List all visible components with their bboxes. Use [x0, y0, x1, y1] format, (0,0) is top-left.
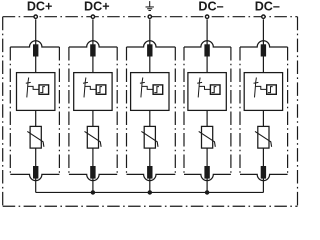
icon: thermal control element square branch 2: [96, 85, 106, 94]
icon: disconnect switch blade branch 2: [84, 78, 86, 98]
terminal circle 3: [148, 15, 151, 18]
SPD module box branch 2: bottom border with arc under disconnector: [69, 174, 117, 180]
junction dot on bus at branch 3: [148, 190, 153, 195]
SPD module box branch 5: bottom border with arc under disconnector: [240, 174, 288, 180]
icon: disconnect switch blade branch 1: [27, 78, 29, 98]
thermal disconnector (top fuse) branch 5: [261, 44, 266, 56]
icon: disconnect switch blade branch 5: [255, 78, 257, 98]
icon: thermal control element square branch 5: [267, 85, 277, 94]
wire: varistor to bottom disconnector branch 2: [92, 148, 94, 166]
protection element box (switch + thermal control icon) branch 4: [188, 73, 226, 111]
ground / earth symbol (PE terminal label): [146, 1, 154, 10]
icon: thermal control element square branch 3: [153, 85, 163, 94]
icon: step curve inside square branch 2: [97, 87, 102, 93]
icon: step curve inside square branch 3: [154, 87, 159, 93]
wire: protection element to varistor branch 4: [206, 110, 208, 126]
varistor diagonal stroke branch 3: [141, 131, 158, 146]
terminal circle 1: [34, 15, 37, 18]
icon: step curve inside square branch 4: [212, 87, 217, 93]
svg-text:DC–: DC–: [255, 0, 280, 14]
varistor body branch 5: [258, 126, 269, 148]
thermal disconnector (top fuse) branch 2: [90, 44, 95, 56]
wire: terminal 2 down to protection element: [92, 19, 94, 72]
wire: terminal 5 down to protection element: [262, 19, 264, 72]
icon: thermal control element square branch 1: [39, 85, 49, 94]
varistor body branch 2: [87, 126, 98, 148]
SPD module box branch 1: top border with arc over disconnector: [10, 41, 59, 47]
icon: meander link to control element branch 1: [28, 86, 39, 89]
wire: varistor to bottom disconnector branch 1: [35, 148, 37, 166]
varistor diagonal stroke branch 4: [199, 131, 216, 146]
protection element box (switch + thermal control icon) branch 2: [74, 73, 112, 111]
varistor diagonal stroke branch 2: [85, 131, 102, 146]
icon: meander link to control element branch 5: [256, 86, 267, 89]
wire: terminal 4 down to protection element: [206, 19, 208, 72]
terminal circle 5: [262, 15, 265, 18]
varistor body branch 1: [30, 126, 41, 148]
wire: protection element to varistor branch 2: [92, 110, 94, 126]
icon: disconnect switch blade branch 4: [198, 78, 200, 98]
svg-text:DC+: DC+: [27, 0, 53, 14]
thermal disconnector (bottom fuse) branch 3: [147, 166, 152, 179]
terminal circle 2: [91, 15, 94, 18]
SPD module box branch 2: right dash-dot border: [116, 47, 118, 174]
wire: protection element to varistor branch 1: [35, 110, 37, 126]
terminal circle 4: [205, 15, 208, 18]
thermal disconnector (bottom fuse) branch 4: [204, 166, 209, 179]
wire: varistor to bottom disconnector branch 5: [262, 148, 264, 166]
icon: meander link to control element branch 4: [199, 86, 210, 89]
wire: bottom disconnector to common bus branch 3: [149, 179, 151, 193]
SPD module box branch 1: right dash-dot border: [58, 47, 60, 174]
SPD module box branch 4: bottom border with arc under disconnector: [184, 174, 231, 180]
protection element box (switch + thermal control icon) branch 1: [17, 73, 55, 111]
SPD module box branch 1: left dash-dot border: [9, 47, 11, 174]
thermal disconnector (top fuse) branch 3: [147, 44, 152, 56]
SPD module box branch 3: left dash-dot border: [126, 47, 128, 174]
icon: meander link to control element branch 3: [142, 86, 153, 89]
SPD module box branch 4: right dash-dot border: [230, 47, 232, 174]
varistor diagonal stroke branch 5: [255, 131, 272, 146]
thermal disconnector (bottom fuse) branch 1: [33, 166, 38, 179]
wire: varistor to bottom disconnector branch 4: [206, 148, 208, 166]
svg-text:DC–: DC–: [198, 0, 223, 14]
wire: bottom disconnector to common bus branch 5: [262, 179, 264, 193]
SPD module box branch 5: top border with arc over disconnector: [240, 41, 288, 47]
wire: bottom disconnector to common bus branch 1: [35, 179, 37, 193]
SPD module box branch 2: top border with arc over disconnector: [69, 41, 117, 47]
wire: bottom disconnector to common bus branch 4: [206, 179, 208, 193]
icon: disconnect switch blade branch 3: [141, 78, 143, 98]
varistor body branch 3: [144, 126, 155, 148]
SPD module box branch 4: left dash-dot border: [183, 47, 185, 174]
wire: bottom disconnector to common bus branch 2: [92, 179, 94, 193]
svg-text:DC+: DC+: [84, 0, 110, 14]
varistor diagonal stroke branch 1: [27, 131, 44, 146]
SPD module box branch 5: right dash-dot border: [287, 47, 289, 174]
thermal disconnector (bottom fuse) branch 2: [90, 166, 95, 179]
icon: actuator tick branch 4: [197, 81, 202, 84]
SPD module box branch 4: top border with arc over disconnector: [184, 41, 231, 47]
SPD module box branch 2: left dash-dot border: [68, 47, 70, 174]
SPD module box branch 3: bottom border with arc under disconnector: [127, 174, 176, 180]
SPD module box branch 1: bottom border with arc under disconnector: [10, 174, 59, 180]
icon: actuator tick branch 2: [83, 81, 88, 84]
SPD module box branch 5: left dash-dot border: [239, 47, 241, 174]
icon: actuator tick branch 5: [254, 81, 259, 84]
icon: thermal control element square branch 4: [210, 85, 220, 94]
icon: meander link to control element branch 2: [85, 86, 96, 89]
SPD module box branch 3: top border with arc over disconnector: [127, 41, 176, 47]
thermal disconnector (top fuse) branch 1: [33, 44, 38, 56]
protection element box (switch + thermal control icon) branch 3: [131, 73, 169, 111]
wire: protection element to varistor branch 5: [262, 110, 264, 126]
protection element box (switch + thermal control icon) branch 5: [244, 73, 282, 111]
junction dot on bus at branch 4: [205, 190, 210, 195]
wire: varistor to bottom disconnector branch 3: [149, 148, 151, 166]
icon: actuator tick branch 1: [26, 81, 31, 84]
icon: step curve inside square branch 5: [268, 87, 273, 93]
SPD module box branch 3: right dash-dot border: [174, 47, 176, 174]
thermal disconnector (bottom fuse) branch 5: [261, 166, 266, 179]
junction dot on bus at branch 2: [91, 190, 96, 195]
enclosure: outer dash-dot border (device housing): [3, 17, 298, 207]
wire: terminal 1 down to protection element: [35, 19, 37, 72]
wire: protection element to varistor branch 3: [149, 110, 151, 126]
icon: step curve inside square branch 1: [40, 87, 45, 93]
varistor body branch 4: [202, 126, 213, 148]
thermal disconnector (top fuse) branch 4: [204, 44, 209, 56]
common bottom bus wire: [36, 191, 264, 193]
wire: terminal 3 down to protection element: [149, 19, 151, 72]
icon: actuator tick branch 3: [140, 81, 145, 84]
